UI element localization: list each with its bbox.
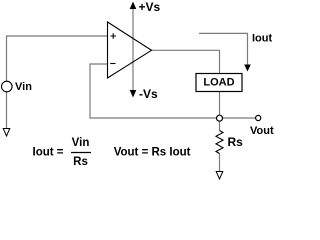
- svg-text:-Vs: -Vs: [139, 87, 158, 101]
- label Vin: [15, 81, 32, 93]
- wire: op-amp output to LOAD top: [152, 50, 220, 73]
- svg-text:Rs: Rs: [228, 135, 244, 149]
- label Rs: [228, 135, 244, 149]
- load box: [196, 74, 242, 92]
- op-amp + input symbol: [111, 33, 117, 38]
- node (output junction): [217, 115, 223, 121]
- wire: Vin bottom to ground: [6, 92, 8, 129]
- wire: node to Vout terminal: [223, 117, 256, 119]
- arrowhead Iout: [244, 65, 251, 72]
- label Vout: [250, 125, 274, 137]
- svg-text:+Vs: +Vs: [139, 0, 161, 14]
- wire: LOAD bottom to node: [219, 92, 221, 116]
- svg-text:Vin: Vin: [72, 137, 90, 149]
- equation: Vout = Rs Iout: [114, 146, 191, 158]
- arrowhead -Vs: [130, 90, 137, 98]
- svg-text:Rs: Rs: [73, 156, 88, 168]
- source Vin: [2, 81, 13, 92]
- label Iout: [252, 33, 272, 45]
- label LOAD: [203, 77, 234, 89]
- wire: node down to resistor Rs: [219, 121, 221, 130]
- label +Vs: [139, 0, 161, 14]
- op-amp U1: [108, 22, 152, 78]
- wire: Vin top to op-amp + input: [7, 36, 108, 82]
- arrowhead +Vs: [130, 2, 137, 10]
- svg-text:LOAD: LOAD: [203, 77, 234, 89]
- wire: resistor Rs bottom to ground: [219, 154, 221, 172]
- equation: Iout = Vin/Rs: [33, 137, 92, 168]
- wire: +Vs / -Vs supply line through op-amp: [132, 7, 134, 91]
- svg-text:Iout =: Iout =: [33, 146, 64, 158]
- resistor Rs: [216, 131, 223, 154]
- wire: feedback from - input down to bottom node: [90, 64, 217, 118]
- terminal Vout: [256, 115, 261, 120]
- svg-text:Vout: Vout: [250, 125, 274, 137]
- op-amp - input symbol: [110, 63, 115, 65]
- label -Vs: [139, 87, 158, 101]
- svg-text:Vout = Rs Iout: Vout = Rs Iout: [114, 146, 191, 158]
- svg-text:Vin: Vin: [15, 81, 32, 93]
- ground (left): [3, 129, 10, 137]
- svg-text:Iout: Iout: [252, 33, 272, 45]
- wire: Iout indicator hook: [199, 33, 248, 65]
- ground (right): [216, 172, 223, 180]
